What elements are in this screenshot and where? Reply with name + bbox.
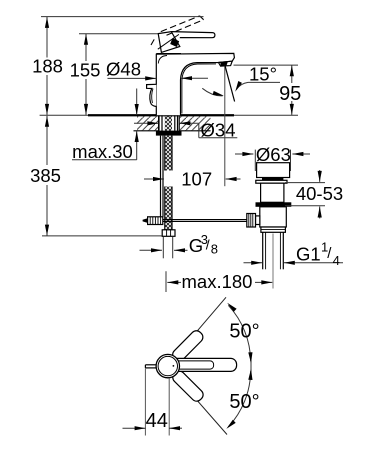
svg-text:44: 44 (146, 410, 168, 432)
svg-text:Ø63: Ø63 (256, 144, 291, 165)
svg-text:8: 8 (211, 242, 218, 257)
svg-text:max.180: max.180 (182, 271, 253, 292)
svg-text:188: 188 (32, 56, 63, 77)
svg-text:15°: 15° (249, 63, 277, 84)
svg-text:50°: 50° (229, 321, 259, 343)
svg-text:Ø34: Ø34 (201, 119, 236, 140)
svg-text:G1: G1 (296, 243, 321, 264)
svg-text:4: 4 (333, 253, 340, 268)
svg-text:155: 155 (70, 59, 101, 80)
svg-text:50°: 50° (229, 391, 259, 413)
svg-text:max.30: max.30 (72, 141, 133, 162)
svg-text:Ø48: Ø48 (106, 59, 141, 80)
svg-text:95: 95 (279, 83, 301, 105)
svg-text:107: 107 (181, 168, 212, 189)
svg-text:40-53: 40-53 (296, 183, 343, 204)
svg-text:385: 385 (30, 165, 61, 186)
svg-text:/: / (206, 237, 210, 253)
